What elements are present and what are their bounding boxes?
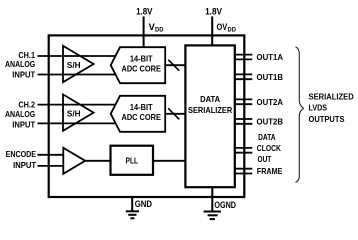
wire PLL input (85, 160, 110, 162)
svg-text:OV: OV (217, 22, 229, 32)
bus slash 2 (168, 108, 179, 119)
output pair OUT1B (235, 74, 253, 79)
svg-text:PLL: PLL (126, 157, 139, 166)
svg-text:OUT: OUT (258, 155, 272, 164)
svg-text:OUTPUTS: OUTPUTS (309, 115, 345, 124)
svg-text:CH.1: CH.1 (18, 51, 35, 60)
svg-text:ADC CORE: ADC CORE (122, 113, 162, 122)
VDD supply stem (143, 16, 145, 47)
PLL block (111, 146, 154, 175)
svg-text:SERIALIZER: SERIALIZER (188, 106, 232, 115)
svg-text:DD: DD (155, 26, 164, 33)
svg-text:DATA: DATA (200, 95, 220, 104)
svg-text:OUT2B: OUT2B (257, 117, 284, 126)
wire PLL output (153, 160, 185, 162)
svg-text:CH.2: CH.2 (18, 100, 35, 109)
ADC core 2 block (111, 96, 166, 132)
svg-text:ANALOG: ANALOG (5, 60, 35, 69)
outer box (chip boundary) (49, 35, 245, 197)
output pair OUT2A (235, 99, 253, 104)
wire ADC2 to serializer bus (165, 113, 185, 115)
svg-text:INPUT: INPUT (13, 161, 36, 170)
svg-text:DATA: DATA (258, 133, 276, 142)
svg-text:OGND: OGND (214, 200, 236, 210)
op-amp encode buffer (63, 148, 85, 174)
ground GND (126, 197, 139, 218)
output pair OUT1A (235, 55, 253, 60)
svg-text:14-BIT: 14-BIT (130, 103, 153, 112)
svg-text:FRAME: FRAME (257, 167, 283, 176)
wire ENCODE input pair (38, 155, 64, 166)
svg-text:GND: GND (135, 199, 153, 209)
svg-text:CLOCK: CLOCK (257, 144, 281, 153)
brace serialized LVDS outputs (296, 47, 304, 183)
ground OGND (204, 187, 221, 219)
svg-text:INPUT: INPUT (12, 70, 35, 79)
svg-text:1.8V: 1.8V (205, 6, 223, 16)
svg-text:S/H: S/H (67, 61, 81, 70)
svg-text:ANALOG: ANALOG (5, 110, 35, 119)
wire CH.2 input pair (38, 105, 118, 124)
output pair OUT2B (235, 119, 253, 124)
wire CH.1 input pair (38, 56, 118, 75)
wire ADC1 to serializer bus (165, 64, 185, 66)
svg-text:ENCODE: ENCODE (6, 150, 37, 159)
bus slash 1 (168, 60, 179, 71)
output pair FRAME (235, 169, 253, 174)
svg-text:14-BIT: 14-BIT (130, 55, 153, 64)
output pair DATA CLOCK OUT (235, 148, 253, 153)
op-amp S/H 2 (63, 94, 94, 130)
op-amp S/H 1 (63, 46, 94, 82)
svg-text:1.8V: 1.8V (136, 6, 153, 16)
svg-text:SERIALIZED: SERIALIZED (309, 92, 355, 101)
OVDD supply stem (211, 16, 213, 45)
data serializer block (185, 45, 234, 187)
ADC core 1 block (111, 47, 166, 83)
svg-text:LVDS: LVDS (309, 104, 328, 113)
svg-text:INPUT: INPUT (12, 120, 35, 129)
svg-text:DD: DD (228, 26, 237, 33)
svg-text:OUT2A: OUT2A (257, 98, 284, 107)
svg-text:ADC CORE: ADC CORE (122, 64, 162, 73)
svg-text:OUT1B: OUT1B (257, 73, 284, 82)
svg-text:S/H: S/H (67, 109, 81, 118)
svg-text:OUT1A: OUT1A (257, 53, 284, 62)
